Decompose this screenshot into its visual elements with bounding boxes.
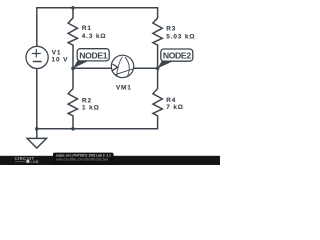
ground triangle (27, 138, 46, 148)
node NODE2 flag box (158, 49, 193, 68)
VM1 gauge right arc (125, 57, 129, 77)
ground stem (36, 129, 38, 139)
svg-text:R4: R4 (166, 97, 176, 104)
wire node row left (NODE1 to VM1) (73, 67, 112, 69)
CircuitLab logo underline (15, 161, 26, 163)
VM1 gauge left arc (117, 57, 123, 77)
V1 plus sign (32, 50, 40, 57)
wire left column lower (36, 69, 38, 129)
svg-text:www.circuitlab.com/c6hs48s29dc: www.circuitlab.com/c6hs48s29dc5a8 (56, 158, 108, 162)
junction dot bottom left (35, 127, 39, 131)
svg-text:NODE2: NODE2 (163, 51, 191, 61)
svg-text:4.3 kΩ: 4.3 kΩ (82, 33, 107, 40)
node NODE1 flag box (73, 49, 109, 69)
junction dot node B (NODE2) (156, 67, 160, 71)
svg-text:10 V: 10 V (52, 57, 69, 64)
svg-text:5.03 kΩ: 5.03 kΩ (166, 33, 195, 40)
junction dot top rail (71, 6, 75, 10)
wire node row right (VM1 to NODE2) (134, 67, 158, 69)
voltmeter VM1 circle (111, 55, 133, 77)
svg-text:R1: R1 (82, 25, 92, 32)
resistor R1 (68, 8, 77, 69)
VM1 needle (115, 69, 134, 75)
svg-text:NODE1: NODE1 (79, 51, 107, 61)
VM1 polarity chevron (112, 64, 117, 70)
svg-text:R3: R3 (166, 26, 176, 33)
V1 minus sign (33, 61, 41, 63)
svg-text:1 kΩ: 1 kΩ (82, 104, 100, 111)
resistor R4 (153, 68, 162, 129)
voltage source V1 circle (26, 46, 48, 68)
svg-text:7 kΩ: 7 kΩ (166, 104, 184, 111)
junction dot node A (NODE1) (71, 67, 75, 71)
resistor R2 (68, 68, 77, 129)
svg-text:LAB: LAB (30, 160, 38, 164)
wire top rail (37, 7, 158, 9)
wire left column upper (36, 8, 38, 47)
resistor R3 (153, 8, 162, 69)
CircuitLab logo bolt square (26, 160, 29, 163)
footer text tab (53, 153, 114, 165)
junction dot bottom R2 (71, 127, 75, 131)
wire bottom rail (37, 128, 158, 130)
svg-text:VM1: VM1 (116, 84, 132, 91)
footer watermark bar (0, 156, 220, 165)
